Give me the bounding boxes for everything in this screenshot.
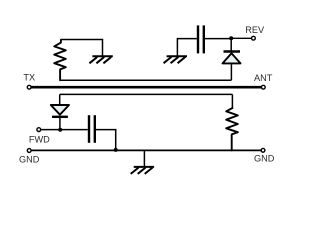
- resistor R2: [226, 108, 238, 150]
- svg-text:FWD: FWD: [29, 134, 50, 144]
- svg-text:ANT: ANT: [254, 73, 273, 83]
- terminal ANT: [261, 85, 265, 89]
- capacitor C1: [198, 25, 204, 53]
- svg-text:TX: TX: [23, 73, 35, 83]
- wire: ground rail: [31, 149, 261, 151]
- node C2-rail junction: [114, 148, 118, 152]
- wire capacitor C1 to REV node: [205, 38, 231, 40]
- ground G1: [89, 56, 112, 63]
- diode D1: [51, 105, 69, 130]
- wire C2 to ground rail: [96, 130, 116, 150]
- wire FWD node to capacitor C2: [41, 129, 88, 131]
- wire: top coupled sense line: [60, 79, 231, 81]
- wire R1 top to ground G1: [61, 40, 103, 57]
- ground G2: [164, 56, 187, 63]
- wire rail to ground G3: [143, 150, 145, 166]
- wire REV node to terminal: [231, 37, 251, 39]
- wire: sense line to resistor R2: [231, 94, 233, 108]
- svg-text:GND: GND: [254, 153, 275, 163]
- terminal REV: [252, 36, 256, 40]
- wire: D2 bottom lead from top sense line: [230, 64, 232, 80]
- terminal FWD: [37, 128, 41, 132]
- node FWD junction: [58, 128, 62, 132]
- resistor R1: [54, 40, 66, 80]
- capacitor C2: [89, 115, 95, 143]
- terminal GND right: [261, 148, 265, 152]
- wire: bottom coupled sense line: [60, 93, 233, 95]
- node REV junction: [229, 36, 233, 40]
- terminal GND left: [27, 149, 31, 153]
- ground G3: [131, 167, 154, 174]
- diode D2: [223, 38, 241, 63]
- main line TX-ANT: [31, 86, 261, 89]
- terminal TX: [27, 85, 31, 89]
- svg-text:GND: GND: [19, 155, 40, 165]
- svg-text:REV: REV: [245, 25, 265, 35]
- wire C1 to ground G2: [177, 39, 196, 56]
- wire: sense line to diode D1: [59, 94, 61, 105]
